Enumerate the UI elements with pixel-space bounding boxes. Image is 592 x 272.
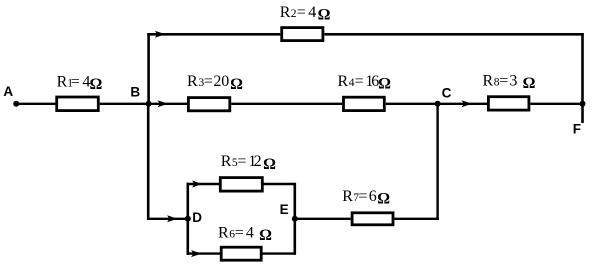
resistor R8 [483,72,536,110]
wire R3 to R4 [231,103,342,105]
svg-text:Ω: Ω [259,227,272,244]
bottom parallel wire [187,252,295,254]
svg-text:R2=4: R2=4 [280,4,316,21]
node B [130,85,151,107]
vertical wire up to C [436,104,438,220]
wire R8 to F [530,103,582,105]
svg-text:F: F [573,121,581,136]
wire elbow to D [147,218,188,220]
current arrow after B [158,100,168,107]
current arrow bottom parallel branch [191,250,201,257]
left vertical of parallel section [187,183,190,255]
svg-text:Ω: Ω [230,76,243,93]
top branch wire left of R2 [147,33,280,36]
svg-text:Ω: Ω [378,76,391,93]
right vertical wire to F [581,33,584,123]
svg-text:R8=3: R8=3 [483,72,518,89]
svg-text:Ω: Ω [318,7,331,24]
wire E to R7 [295,218,351,220]
svg-text:D: D [192,210,202,225]
resistor R3 [187,73,243,111]
resistor R2 [280,4,331,41]
svg-text:Ω: Ω [523,75,536,92]
wire R1 to B [100,103,149,105]
svg-text:C: C [442,86,452,101]
top parallel wire [187,183,295,185]
svg-text:B: B [130,85,140,100]
wire B up to top branch [147,33,150,104]
node D [185,210,203,225]
wire R4 to C [386,103,438,105]
resistor R6 [218,224,272,260]
svg-text:R6=4: R6=4 [218,224,254,241]
wire R7 to C riser [394,218,438,220]
node A [3,84,19,107]
node C [435,86,452,107]
wire B to R3 [149,103,187,105]
top branch wire right of R2 [324,33,583,36]
wire A to R1 [16,103,56,105]
resistor R1 [57,74,103,111]
svg-text:R4=16: R4=16 [338,73,380,90]
svg-text:R7=6: R7=6 [342,188,377,205]
svg-text:R3=20: R3=20 [187,73,229,90]
svg-text:Ω: Ω [90,76,103,93]
current arrow top parallel branch [192,181,202,188]
svg-text:A: A [3,84,13,99]
current arrow before D [167,215,177,222]
svg-text:E: E [280,202,289,217]
resistor R5 [220,153,276,191]
svg-text:Ω: Ω [377,191,390,208]
node F [573,101,586,137]
svg-text:Ω: Ω [263,156,276,173]
wire C to R8 [438,103,487,105]
current arrow on top branch [155,31,165,38]
node E [280,202,298,222]
current arrow after C [462,100,472,107]
resistor R7 [342,188,393,225]
resistor R4 [338,73,392,111]
svg-text:R5=12: R5=12 [221,153,262,170]
svg-text:R1=4: R1=4 [57,74,91,91]
right vertical of parallel section [293,183,296,255]
wire B down to bottom branch [147,104,150,220]
